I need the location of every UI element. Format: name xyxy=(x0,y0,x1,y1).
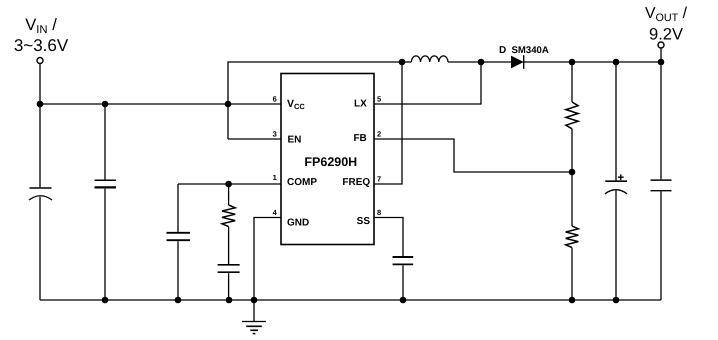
node dot VIN-C2 xyxy=(102,101,109,108)
svg-text:1: 1 xyxy=(273,173,277,182)
svg-text:SS: SS xyxy=(357,216,371,227)
svg-text:8: 8 xyxy=(377,208,381,217)
svg-text:2: 2 xyxy=(377,130,381,139)
capacitor C2 input ceramic xyxy=(95,104,117,300)
svg-text:9.2V: 9.2V xyxy=(649,26,683,44)
terminal VIN xyxy=(37,58,43,64)
node dot rail-C6 xyxy=(613,297,620,304)
capacitor C7 output ceramic xyxy=(651,62,672,300)
wire LX pin 5 xyxy=(374,62,481,104)
svg-text:EN: EN xyxy=(288,135,302,146)
svg-text:VOUT /: VOUT / xyxy=(645,5,688,24)
node dot VIN-C1 xyxy=(37,101,44,108)
wire GND pin 4 xyxy=(254,218,281,301)
wire VIN terminal stub xyxy=(39,64,41,105)
svg-text:SM340A: SM340A xyxy=(512,45,549,56)
svg-text:GND: GND xyxy=(287,218,309,229)
capacitor C4 comp xyxy=(218,227,240,300)
ground symbol xyxy=(242,300,266,334)
node dot rail-GND xyxy=(251,297,258,304)
node dot rail-C4 xyxy=(226,297,233,304)
wire bottom rail xyxy=(40,299,661,301)
svg-text:FB: FB xyxy=(353,133,366,144)
resistor R1 feedback upper xyxy=(566,62,578,172)
diode D SM340A xyxy=(481,55,661,69)
svg-text:3: 3 xyxy=(273,130,277,139)
terminal VOUT xyxy=(658,42,664,62)
node dot FB xyxy=(569,169,576,176)
svg-text:D: D xyxy=(499,45,506,56)
capacitor C1 input electrolytic xyxy=(29,104,52,300)
wire top rail to inductor xyxy=(228,62,402,139)
wire FREQ pin 7 xyxy=(374,62,402,184)
capacitor C5 soft-start xyxy=(393,257,414,300)
svg-text:6: 6 xyxy=(273,95,277,104)
label VOUT / 9.2V xyxy=(645,5,688,44)
wire SS pin 8 xyxy=(374,218,403,257)
capacitor C3 comp xyxy=(167,184,191,300)
inductor L1 xyxy=(402,56,481,62)
resistor R2 feedback lower xyxy=(566,172,579,300)
node dot VOUT-R1 xyxy=(569,59,576,66)
label VIN / 3~3.6V xyxy=(14,15,69,55)
wire FB pin 2 xyxy=(374,139,572,172)
wire COMP pin 1 xyxy=(178,183,281,185)
svg-text:FREQ: FREQ xyxy=(342,177,370,188)
node dot COMP xyxy=(225,181,232,188)
capacitor C6 output electrolytic xyxy=(605,62,627,300)
node dot rail-C3 xyxy=(175,297,182,304)
node dot rail-R2 xyxy=(569,297,576,304)
label D SM340A xyxy=(499,45,549,56)
op-amp U1 FP6290H box xyxy=(281,74,374,245)
resistor R3 comp xyxy=(222,184,235,227)
svg-text:4: 4 xyxy=(273,208,278,217)
wire EN pin 3 xyxy=(228,138,281,140)
node dot VOUT-terminal xyxy=(658,59,665,66)
svg-text:FP6290H: FP6290H xyxy=(304,155,357,169)
node dot rail-C5 xyxy=(400,297,407,304)
node dot rail-C2 xyxy=(102,297,109,304)
svg-text:COMP: COMP xyxy=(287,177,317,188)
svg-text:LX: LX xyxy=(354,99,367,110)
node dot inductor-right LX xyxy=(478,59,485,66)
node dot inductor-left xyxy=(399,59,406,66)
svg-text:3~3.6V: 3~3.6V xyxy=(14,36,69,55)
svg-text:VIN /: VIN / xyxy=(25,15,57,36)
label C6 plus xyxy=(618,174,624,180)
wire VIN rail xyxy=(40,103,281,105)
svg-text:7: 7 xyxy=(377,175,381,184)
node dot VOUT-C6 xyxy=(613,59,620,66)
svg-text:5: 5 xyxy=(377,95,381,104)
node dot VIN-EN xyxy=(225,101,232,108)
